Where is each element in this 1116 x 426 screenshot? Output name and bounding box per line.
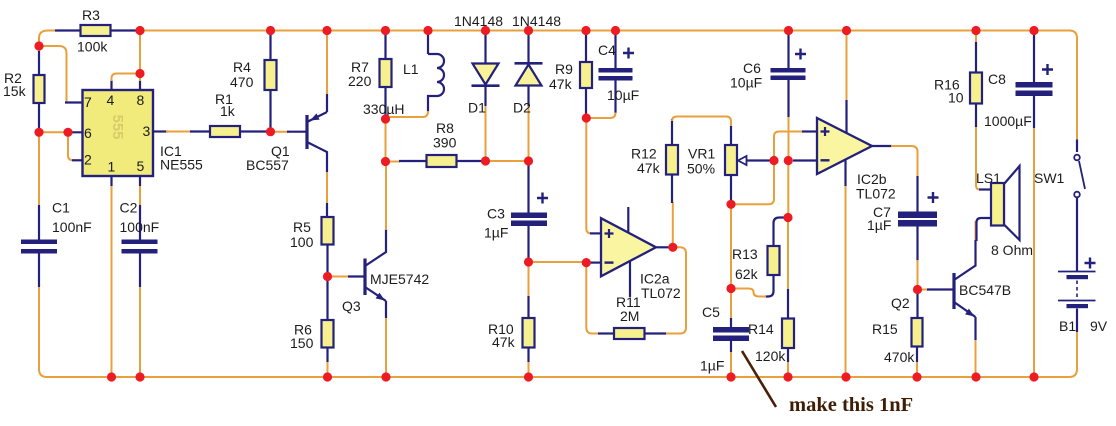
wire R16 to LS1	[976, 127, 980, 190]
svg-text:make this 1nF: make this 1nF	[789, 394, 913, 416]
svg-text:1µF: 1µF	[484, 225, 508, 241]
svg-text:C3: C3	[487, 206, 505, 222]
diode D2 1N4148	[527, 32, 529, 63]
555 pin3 stub and wire to R1	[153, 130, 168, 132]
svg-text:47k: 47k	[492, 334, 516, 350]
wire VR1 bottom to IC2b plus input	[731, 132, 803, 205]
resistor R5	[326, 203, 328, 217]
junction dots top rail	[135, 26, 144, 35]
svg-text:R5: R5	[293, 219, 311, 235]
minus node stub	[586, 262, 601, 264]
resistor R13	[774, 218, 789, 247]
svg-text:470: 470	[230, 74, 254, 90]
wire R7 junction down	[385, 122, 387, 158]
transistor Q3 MJE5742	[330, 276, 350, 278]
capacitor C4	[614, 32, 616, 68]
IC2b output wire to C7	[872, 145, 892, 147]
svg-text:1µF: 1µF	[867, 217, 891, 233]
resistor R8	[388, 161, 400, 163]
op-amp IC2a TL072	[601, 218, 656, 276]
resistor R10	[528, 266, 530, 297]
svg-text:C2: C2	[120, 200, 138, 216]
555 pin6 stub + wire	[41, 131, 66, 133]
resistor R12	[671, 175, 673, 204]
junction dots bottom rail	[107, 372, 116, 381]
op-amp IC2b TL072	[817, 118, 872, 174]
wire minus node to R11	[586, 266, 599, 334]
resistor R3	[55, 29, 81, 31]
svg-text:4: 4	[107, 92, 115, 108]
svg-text:R13: R13	[732, 246, 758, 262]
svg-text:120k: 120k	[755, 348, 786, 364]
svg-text:Q3: Q3	[342, 298, 361, 314]
svg-text:1µF: 1µF	[700, 358, 724, 374]
555 pin1 wire to bottom rail	[110, 176, 112, 186]
svg-text:C8: C8	[988, 71, 1006, 87]
inductor L1	[427, 32, 429, 54]
svg-text:MJE5742: MJE5742	[370, 271, 429, 287]
svg-text:330µH: 330µH	[363, 101, 405, 117]
svg-text:100: 100	[290, 234, 314, 250]
svg-text:R9: R9	[555, 61, 573, 77]
resistor R15	[916, 292, 918, 318]
svg-text:9V: 9V	[1090, 318, 1108, 334]
resistor R16	[975, 32, 977, 43]
resistor R4	[269, 32, 271, 60]
IC1 555 box	[83, 90, 154, 176]
svg-text:Q2: Q2	[891, 295, 910, 311]
svg-text:1N4148: 1N4148	[512, 13, 561, 29]
svg-text:10µF: 10µF	[730, 75, 762, 91]
capacitor C6	[787, 32, 789, 68]
svg-text:10µF: 10µF	[607, 87, 639, 103]
resistor R6	[326, 280, 328, 320]
svg-text:2: 2	[84, 152, 92, 168]
svg-text:R4: R4	[233, 59, 251, 75]
555 pin2 wire	[68, 134, 73, 160]
switch SW1	[1076, 140, 1078, 153]
svg-text:100nF: 100nF	[120, 219, 160, 235]
svg-text:D2: D2	[513, 100, 531, 116]
resistor R9	[585, 32, 587, 62]
svg-text:47k: 47k	[549, 76, 573, 92]
svg-text:C5: C5	[702, 304, 720, 320]
svg-text:D1: D1	[468, 100, 486, 116]
svg-text:5: 5	[137, 158, 145, 174]
capacitor C3	[527, 163, 529, 213]
svg-text:C1: C1	[52, 200, 70, 216]
svg-text:R15: R15	[872, 321, 898, 337]
wire R12 top to VR1 top	[672, 117, 731, 128]
svg-text:100nF: 100nF	[52, 219, 92, 235]
555 pin7 stub	[65, 101, 83, 103]
diode D1 1N4148	[484, 32, 486, 64]
svg-text:8: 8	[137, 92, 145, 108]
capacitor C1	[38, 205, 40, 240]
wire C6 node down to R13/R14 node	[787, 164, 789, 214]
555 pin4 wire	[110, 80, 112, 90]
555 pin5 wire	[139, 176, 141, 186]
junction dots middle	[34, 41, 43, 50]
wire output to R12	[672, 202, 674, 243]
svg-text:7: 7	[84, 94, 92, 110]
wire node A to 555 pin7	[42, 46, 67, 103]
wire top rail	[142, 31, 1077, 141]
capacitor C8	[1033, 32, 1035, 82]
capacitor C5	[730, 292, 732, 319]
svg-text:SW1: SW1	[1034, 170, 1065, 186]
svg-text:6: 6	[84, 125, 92, 141]
svg-text:TL072: TL072	[856, 186, 896, 202]
svg-text:555: 555	[109, 114, 126, 139]
IC2a output stub	[657, 246, 672, 248]
wire D1 dot to D2 dot	[486, 160, 529, 162]
svg-text:NE555: NE555	[160, 157, 203, 173]
transistor Q1 BC557	[305, 115, 308, 149]
svg-text:50%: 50%	[687, 161, 715, 177]
resistor R7	[384, 32, 386, 59]
svg-text:R3: R3	[82, 7, 100, 23]
svg-text:C4: C4	[598, 42, 616, 58]
annotation arrow line	[742, 351, 776, 407]
svg-text:47k: 47k	[637, 160, 661, 176]
svg-text:220: 220	[348, 73, 372, 89]
svg-text:10: 10	[948, 90, 964, 106]
potentiometer VR1	[730, 126, 732, 145]
IC2b minus stub	[793, 159, 817, 161]
svg-text:R14: R14	[748, 321, 774, 337]
svg-text:8 Ohm: 8 Ohm	[991, 242, 1033, 258]
resistor R1	[190, 130, 210, 132]
svg-text:3: 3	[143, 123, 151, 139]
svg-text:62k: 62k	[735, 266, 759, 282]
svg-text:15k: 15k	[3, 83, 27, 99]
wire left rail R2 to C1	[38, 134, 40, 206]
svg-text:VR1: VR1	[688, 146, 715, 162]
wire C4 node to IC2a plus input	[586, 121, 591, 233]
battery B1 9V	[1058, 271, 1096, 273]
svg-text:1k: 1k	[220, 103, 236, 119]
wire C7 node to Q2 base	[918, 289, 929, 291]
resistor R14	[787, 221, 789, 290]
wire R1 to Q1 base	[272, 131, 289, 133]
resistor R2	[38, 51, 40, 75]
wire top-left corner to R3	[39, 31, 57, 55]
svg-text:1: 1	[108, 159, 116, 175]
resistor R11	[598, 332, 614, 334]
capacitor C7	[916, 176, 918, 212]
svg-text:1000µF: 1000µF	[984, 113, 1032, 129]
svg-text:1N4148: 1N4148	[454, 13, 503, 29]
wire VR1 node down to C5	[730, 208, 732, 285]
wire bottom rail	[39, 287, 1077, 377]
svg-text:150: 150	[290, 335, 314, 351]
svg-text:BC547B: BC547B	[959, 282, 1011, 298]
svg-text:100k: 100k	[77, 39, 108, 55]
capacitor C2	[139, 205, 141, 240]
svg-text:390: 390	[433, 135, 457, 151]
svg-text:470k: 470k	[884, 349, 915, 365]
svg-text:2M: 2M	[620, 308, 639, 324]
svg-text:L1: L1	[403, 61, 419, 77]
svg-text:B1: B1	[1059, 318, 1076, 334]
555 pin8 wire	[139, 80, 141, 90]
svg-text:BC557: BC557	[246, 157, 289, 173]
transistor Q2 BC547B	[952, 273, 955, 309]
speaker LS1	[977, 218, 992, 241]
svg-text:TL072: TL072	[641, 285, 681, 301]
wire C3 to minus node	[529, 261, 583, 263]
svg-text:LS1: LS1	[976, 170, 1001, 186]
wire R11 to output node	[666, 247, 686, 333]
